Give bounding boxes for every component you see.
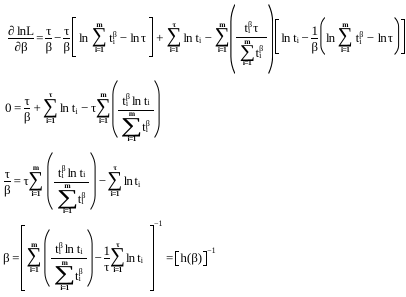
Equation 1	[8, 3, 405, 73]
Equation 4	[3, 225, 216, 291]
Equation 3	[4, 153, 140, 211]
Equation 2	[5, 80, 160, 138]
